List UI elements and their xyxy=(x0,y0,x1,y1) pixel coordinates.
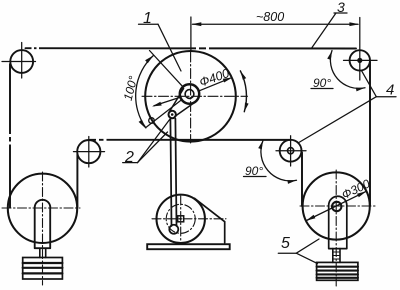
wire belt mid horizontal xyxy=(90,139,290,141)
100 deg arc xyxy=(136,55,154,128)
svg-text:4: 4 xyxy=(386,82,394,99)
connecting rod xyxy=(170,119,171,226)
wire belt left vertical xyxy=(9,64,11,208)
D3 neck xyxy=(40,248,46,257)
svg-text:~800: ~800 xyxy=(256,10,284,24)
label 1 leader xyxy=(139,23,159,25)
alt crank radial line xyxy=(147,100,182,127)
arrow arc-bottom xyxy=(139,120,146,129)
dim ~800 line xyxy=(193,23,359,25)
label 5 leader xyxy=(278,252,296,254)
D2 hanger xyxy=(329,205,347,248)
pulley P1 top-left xyxy=(10,50,33,73)
F400 radius arrow up-right xyxy=(199,78,230,91)
label 3 leader xyxy=(334,12,347,14)
F300 diameter arrows xyxy=(307,191,367,220)
drum D1 centerlines xyxy=(142,52,248,143)
label 4 leader xyxy=(376,96,396,98)
D2 neck rod xyxy=(333,249,340,263)
wire belt right-mid vertical xyxy=(301,153,303,207)
svg-text:2: 2 xyxy=(124,149,134,166)
svg-text:100°: 100° xyxy=(121,74,141,102)
winch base xyxy=(147,244,230,249)
D3 hanger xyxy=(35,209,51,249)
svg-text:5: 5 xyxy=(281,235,290,252)
wire belt mid-left vertical xyxy=(76,154,78,208)
D2 weight xyxy=(317,262,358,280)
90 deg arc B (mid-right pulley) xyxy=(261,141,297,181)
drum D1 hub xyxy=(180,84,199,103)
F400 radius arrow down-left xyxy=(154,97,180,106)
svg-text:90°: 90° xyxy=(313,76,331,90)
dim ext line left xyxy=(190,17,192,51)
alt crank position circle xyxy=(149,118,155,124)
pulley P2 mid-left xyxy=(77,140,100,163)
svg-text:1: 1 xyxy=(143,10,152,27)
drum D3 bottom-left xyxy=(8,174,77,243)
winch centerlines xyxy=(152,196,226,242)
label 2 leader xyxy=(123,162,138,164)
crank link xyxy=(175,102,196,117)
crank pin xyxy=(169,111,176,118)
svg-text:3: 3 xyxy=(337,0,345,15)
svg-text:90°: 90° xyxy=(245,164,263,178)
arrow arc-top xyxy=(145,55,153,63)
drum D1 F400 xyxy=(145,51,236,142)
radial line to arc top xyxy=(150,51,184,87)
D3 centerlines xyxy=(2,172,80,285)
label 90B underline xyxy=(244,176,267,178)
wire belt top horizontal xyxy=(26,47,357,49)
winch pin xyxy=(169,225,178,234)
D2 centerlines xyxy=(300,170,376,286)
oscillation arc right of drum xyxy=(240,71,246,112)
label 90A underline xyxy=(311,88,333,90)
D3 weight xyxy=(23,258,63,280)
svg-text:Ф400: Ф400 xyxy=(198,66,232,90)
90 deg arc A (top-right pulley) xyxy=(330,51,365,89)
wire belt right vertical xyxy=(369,62,371,206)
drum D2 F300 xyxy=(303,172,370,239)
svg-text:Ф300: Ф300 xyxy=(339,176,372,202)
winch drum xyxy=(157,195,205,243)
winch housing xyxy=(195,198,225,243)
pulley P4 mid-right xyxy=(280,140,302,162)
wire belt top chain patch near P1 xyxy=(10,48,209,144)
pulley P3 top-right xyxy=(350,50,370,70)
